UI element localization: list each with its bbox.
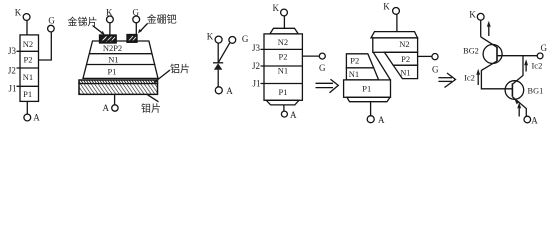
wire A: [283, 105, 285, 111]
svg-text:N2: N2: [23, 39, 33, 49]
svg-text:P1: P1: [108, 67, 117, 77]
svg-text:Ic2: Ic2: [464, 73, 475, 83]
svg-text:G: G: [48, 16, 55, 26]
terminal K: [477, 13, 484, 20]
svg-text:J1: J1: [8, 84, 16, 94]
svg-text:P2: P2: [24, 55, 33, 65]
wire K: [396, 14, 398, 31]
terminal A: [281, 111, 287, 117]
right P2 trapezoid: [384, 52, 417, 65]
bottom cap: [347, 97, 390, 101]
terminal G: [229, 37, 236, 44]
bottom cap: [266, 100, 299, 105]
molybdenum plate (hatched): [79, 84, 158, 95]
svg-text:K: K: [15, 8, 22, 18]
layer P1 box: [344, 80, 391, 97]
SCR triangle: [214, 63, 222, 69]
svg-text:A: A: [226, 86, 233, 96]
svg-text:P2: P2: [401, 54, 410, 64]
right N1 trapezoid: [393, 65, 417, 78]
stack outline: [264, 34, 302, 100]
svg-text:K: K: [469, 9, 476, 19]
terminal G: [319, 53, 325, 59]
current arrow up near A: [518, 105, 520, 117]
split cut line: [373, 52, 390, 80]
terminal G: [537, 53, 543, 59]
terminal K: [393, 7, 400, 14]
svg-text:P1: P1: [362, 84, 371, 94]
svg-text:钼片: 钼片: [141, 102, 161, 115]
pointer to cathode contact: [93, 26, 104, 34]
terminal A: [367, 116, 374, 123]
aluminum strip (solid dark): [79, 80, 158, 84]
svg-text:A: A: [531, 115, 538, 125]
svg-text:N2: N2: [399, 39, 409, 49]
terminal K: [23, 14, 30, 21]
wire G: [135, 23, 137, 35]
terminal G: [133, 16, 140, 23]
terminal K: [281, 9, 288, 16]
pointer 钼片: [148, 95, 159, 102]
BG1 circle: [505, 81, 524, 100]
svg-text:N1: N1: [278, 66, 288, 76]
svg-text:金硼钯: 金硼钯: [147, 13, 177, 26]
svg-text:G: G: [432, 65, 439, 75]
gate wire: [218, 43, 229, 63]
svg-text:K: K: [273, 3, 280, 13]
wire A: [217, 70, 219, 87]
svg-text:N1: N1: [23, 72, 33, 82]
svg-text:N2P2: N2P2: [103, 43, 122, 53]
BG2 circle: [483, 45, 502, 64]
terminal K: [107, 16, 114, 23]
svg-text:N2: N2: [278, 37, 288, 47]
cathode bar: [213, 62, 223, 64]
arrow body: [438, 77, 452, 79]
junction J3 line: [17, 50, 39, 52]
pointer to gate contact: [140, 24, 148, 32]
BG1 emitter with arrow to A: [512, 97, 526, 117]
BG2 collector: [481, 61, 512, 89]
wire G to P2: [39, 32, 52, 60]
junction J1 line: [261, 83, 303, 85]
svg-text:N1: N1: [400, 67, 410, 77]
silicon trapezoid: [83, 41, 158, 78]
top cap: [371, 32, 418, 38]
cathode contact (black): [100, 35, 117, 43]
terminal G: [48, 25, 55, 32]
wire A: [370, 102, 372, 116]
svg-text:A: A: [33, 113, 40, 123]
left P2 trapezoid: [346, 54, 373, 68]
svg-text:P2: P2: [279, 51, 288, 61]
svg-text:J2: J2: [8, 65, 16, 75]
svg-text:P1: P1: [279, 87, 288, 97]
boundary N1/P1: [87, 64, 156, 66]
terminal A: [524, 116, 531, 123]
svg-text:J2: J2: [252, 61, 260, 71]
junction J2 line: [261, 65, 303, 67]
svg-text:Ic2: Ic2: [531, 61, 542, 71]
terminal A: [24, 114, 31, 121]
terminal A: [112, 105, 118, 111]
svg-text:J3: J3: [252, 43, 261, 53]
BG2 emitter: [481, 37, 497, 48]
svg-text:铝片: 铝片: [170, 62, 190, 75]
wire K: [480, 20, 482, 37]
gate wire: [418, 55, 432, 57]
wire K: [217, 43, 219, 63]
junction J2 line: [17, 67, 39, 69]
wire A: [26, 101, 28, 114]
svg-text:P1: P1: [23, 89, 32, 99]
svg-text:J1: J1: [252, 79, 260, 89]
wire K: [109, 23, 111, 35]
right interconnect: [512, 56, 523, 85]
svg-text:A: A: [103, 103, 110, 113]
wire A: [114, 94, 116, 104]
svg-text:A: A: [378, 115, 385, 125]
svg-text:P2: P2: [350, 56, 359, 66]
pointer 铝片 arrow: [155, 70, 170, 82]
left N1 trapezoid: [346, 68, 378, 80]
left current arrow Ic2: [477, 71, 479, 85]
top cap: [270, 28, 298, 34]
wire K to stack: [26, 20, 28, 35]
svg-text:G: G: [319, 63, 326, 73]
BG2 base wire to G: [497, 55, 537, 57]
stack outline: [20, 35, 39, 102]
svg-text:N1: N1: [349, 69, 359, 79]
arrow head: [445, 73, 456, 88]
junction J3 line: [261, 48, 303, 50]
BG2 base bar: [496, 47, 498, 61]
terminal K: [215, 36, 222, 43]
wire K: [283, 16, 285, 28]
terminal G: [432, 54, 438, 60]
svg-text:BG2: BG2: [463, 46, 479, 55]
right current arrow Ic2: [525, 62, 527, 72]
boundary N2P2/N1: [89, 53, 152, 55]
svg-text:J3: J3: [8, 46, 17, 56]
svg-text:N1: N1: [108, 55, 118, 65]
svg-text:G: G: [242, 34, 249, 44]
gate contact (black): [127, 35, 137, 43]
svg-text:K: K: [383, 2, 390, 12]
svg-text:A: A: [290, 110, 297, 120]
svg-text:G: G: [541, 43, 548, 53]
junction J1 line: [17, 85, 39, 87]
terminal A: [215, 87, 222, 94]
arrow head: [330, 79, 339, 93]
current arrow up near K: [488, 24, 490, 37]
svg-text:BG1: BG1: [528, 86, 544, 95]
gate wire: [302, 55, 319, 57]
BG1 base bar: [511, 83, 513, 96]
layer N2 box: [373, 38, 418, 52]
svg-text:K: K: [207, 32, 214, 42]
arrow body: [316, 82, 334, 84]
